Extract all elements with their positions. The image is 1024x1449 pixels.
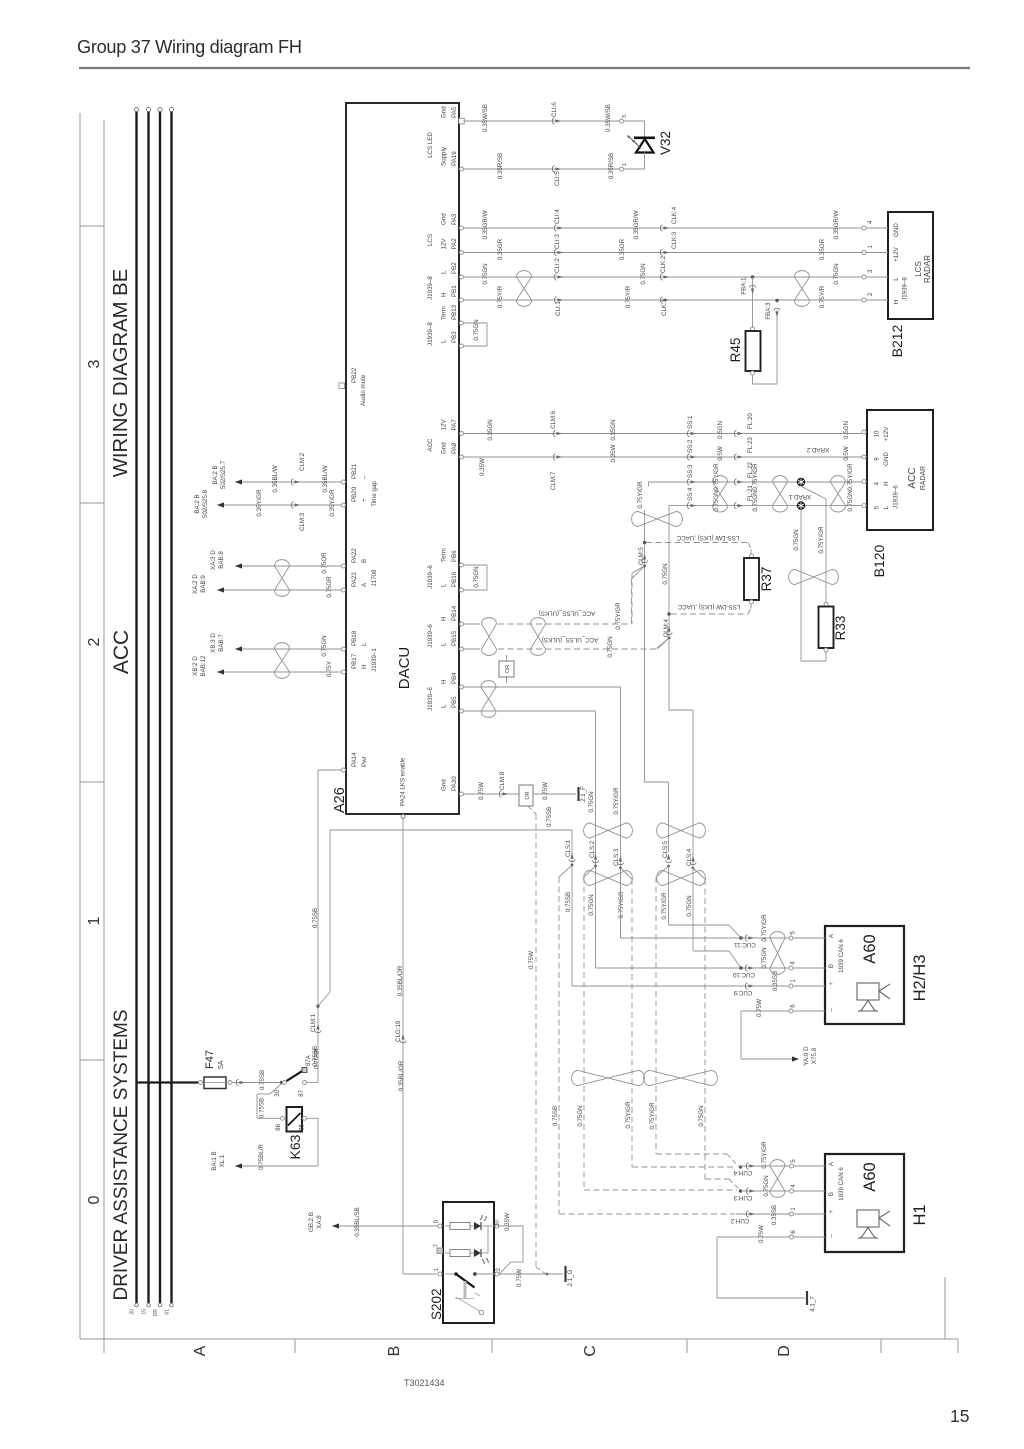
svg-text:+12V: +12V [893,246,900,261]
wire PB2 0.75GN [464,276,863,278]
svg-text:0.75GN: 0.75GN [321,635,328,656]
svg-text:CLM:3: CLM:3 [299,512,306,531]
svg-text:Gnd: Gnd [441,106,448,118]
wire H 0.75Y/GR row [649,481,863,483]
svg-text:SS:4: SS:4 [687,487,694,501]
wire PB21 0.35BL/W to BA:2 [235,481,342,483]
svg-text:B: B [828,1192,835,1196]
svg-text:A: A [192,1345,209,1356]
svg-text:LCS: LCS [914,261,923,277]
relay contact 30/87A/87 [280,1081,283,1084]
svg-text:0.75GN: 0.75GN [473,566,480,587]
svg-text:0.75Y: 0.75Y [326,661,333,677]
svg-text:XA:3 D: XA:3 D [210,550,217,570]
camera A60 H1 [825,1154,904,1252]
svg-text:H1: H1 [911,1204,929,1225]
svg-text:L: L [883,505,890,509]
svg-text:H: H [361,665,368,669]
svg-text:F47: F47 [204,1050,216,1069]
svg-text:CLM:6: CLM:6 [550,410,557,429]
svg-text:CLS:3: CLS:3 [613,848,620,866]
svg-text:0.75Y/R: 0.75Y/R [625,285,632,308]
wire PB14 ACC ULSS dashed [464,623,481,625]
pins PB20 PB21 time gap [342,480,346,484]
svg-text:PB5: PB5 [451,696,458,708]
svg-text:0.75Y/GR: 0.75Y/GR [618,891,625,919]
svg-text:H: H [441,293,448,297]
svg-text:DACU: DACU [396,647,413,690]
svg-text:1939 CAN 6: 1939 CAN 6 [838,1167,845,1201]
svg-text:CLI:1: CLI:1 [555,301,562,316]
loop PB6-PB16 0.75GN [464,564,488,566]
svg-text:J1939–6: J1939–6 [427,624,434,648]
svg-text:0.35W: 0.35W [479,458,486,476]
twisted pairs on H/L [713,476,728,512]
svg-text:CUC:11: CUC:11 [734,941,756,948]
svg-text:0.75GN: 0.75GN [793,529,800,550]
svg-text:PA3: PA3 [451,213,458,225]
svg-text:PA22: PA22 [351,548,358,563]
svg-text:0.35R/SB: 0.35R/SB [608,153,615,179]
svg-text:Term: Term [441,548,448,562]
wire PB18 0.75GN to XB:3 [235,648,342,650]
svg-text:A26: A26 [332,787,348,813]
svg-text:0.75W: 0.75W [758,1225,765,1243]
svg-text:SS:2: SS:2 [687,439,694,453]
svg-text:CUC:9: CUC:9 [733,989,752,996]
svg-text:0.75GN: 0.75GN [752,490,759,511]
svg-text:9: 9 [874,457,881,461]
connector CLS:3 [617,863,623,865]
svg-text:0.75SB: 0.75SB [546,807,553,827]
svg-text:0.75Y/GR: 0.75Y/GR [613,787,620,815]
svg-text:0.35BL/W: 0.35BL/W [322,465,329,492]
svg-text:0.35BL/SB: 0.35BL/SB [354,1207,361,1237]
svg-text:FL:23: FL:23 [747,437,754,453]
svg-text:J1939–8: J1939–8 [902,277,909,301]
svg-text:C: C [582,1345,599,1357]
svg-text:XB:3 D: XB:3 D [210,633,217,653]
svg-text:WIRING DIAGRAM BE: WIRING DIAGRAM BE [110,269,132,477]
svg-text:0.75Y/R: 0.75Y/R [497,285,504,308]
splice XRAD.1 [797,501,805,509]
svg-text:BA:2 B: BA:2 B [194,494,201,513]
svg-text:SS:1: SS:1 [687,415,694,429]
svg-text:ACC_ULSS_(ULKS): ACC_ULSS_(ULKS) [539,610,595,617]
svg-text:H: H [893,300,900,304]
svg-text:FBA:3: FBA:3 [765,302,772,320]
svg-text:0.75GN: 0.75GN [763,1175,770,1196]
svg-text:0.35GR/W: 0.35GR/W [482,210,489,239]
dashed rows into CUH connectors [656,1153,727,1155]
svg-text:CUC:10: CUC:10 [732,971,755,978]
wire PA7 12V 0.35GN/0.5GN [464,433,863,435]
svg-text:Term: Term [441,306,448,320]
svg-text:CLI:5: CLI:5 [554,171,561,186]
svg-text:0.75Y/R: 0.75Y/R [819,285,826,308]
svg-text:12V: 12V [441,238,448,250]
svg-text:CLM:8: CLM:8 [499,771,506,790]
svg-text:CLM:5: CLM:5 [638,546,645,565]
svg-text:XRAD.1: XRAD.1 [788,493,811,500]
svg-text:OR: OR [525,791,531,799]
wire L 0.75GN row [669,505,862,507]
svg-text:0.35GN: 0.35GN [487,419,494,440]
svg-text:502/S25.8: 502/S25.8 [202,489,209,518]
svg-text:PA8: PA8 [451,442,458,454]
svg-text:J1939–6: J1939–6 [427,687,434,711]
wire PB5 0.75GN [464,710,596,712]
svg-text:BAB:7: BAB:7 [218,634,225,652]
svg-text:PA7: PA7 [451,419,458,431]
svg-text:3: 3 [622,115,628,118]
pin PA24 LKS enable (bottom edge) [401,815,405,819]
svg-text:0.75Y/GR: 0.75Y/GR [637,481,644,509]
svg-text:0.75GN: 0.75GN [482,263,489,284]
svg-text:0.75SB: 0.75SB [259,1070,266,1090]
svg-text:Gnd: Gnd [441,442,448,454]
svg-text:PB21: PB21 [351,463,358,479]
svg-text:J1708: J1708 [371,569,378,586]
svg-text:RADAR: RADAR [920,466,927,491]
svg-text:H2/H3: H2/H3 [911,955,929,1002]
radar sensor B212 LCS [888,212,933,319]
radar sensor B120 ACC [867,410,933,530]
svg-text:–: – [361,475,368,479]
svg-text:0.35GR: 0.35GR [819,238,826,260]
svg-text:2: 2 [86,637,103,646]
svg-text:BA:1 B: BA:1 B [211,1151,218,1170]
wire PB1 0.75Y/R [464,299,863,301]
svg-text:0.75GN: 0.75GN [713,490,720,511]
svg-text:LCS LED: LCS LED [427,132,434,158]
pin PB22 audio mute [339,383,345,389]
power rails 30/15/DR/61 [135,111,137,1303]
svg-text:Group 37 Wiring diagram FH: Group 37 Wiring diagram FH [77,37,302,57]
svg-text:CLS:2: CLS:2 [589,840,596,858]
svg-text:CLI:3: CLI:3 [554,234,561,249]
wire CLM:4 0.75GN vertical [668,506,670,710]
wire XRAD.1 0.75GN down [800,510,802,661]
loop pin10 to pin2 0.35W [499,1225,523,1227]
svg-text:0.35BL/OR: 0.35BL/OR [397,965,404,996]
svg-text:X75.8: X75.8 [811,1047,818,1064]
svg-text:B: B [386,1346,403,1357]
svg-text:0.5GN: 0.5GN [843,421,850,439]
svg-text:XL:1: XL:1 [219,1154,226,1167]
svg-text:0.75W: 0.75W [516,1269,523,1287]
wire PA30 0.75W [464,793,520,795]
wire PB17 0.75Y to XB:2 [217,671,342,673]
svg-text:0.5W: 0.5W [717,446,724,461]
svg-text:S202: S202 [429,1288,444,1320]
svg-text:BA:2 B: BA:2 B [212,465,219,484]
terminating resistor R45 [751,275,754,278]
svg-text:0.75OR: 0.75OR [321,552,328,574]
svg-text:FL:20: FL:20 [747,413,754,429]
svg-text:CLS:4: CLS:4 [686,848,693,866]
svg-text:0.75GN: 0.75GN [607,636,614,657]
svg-text:0.75GR: 0.75GR [326,576,333,598]
wire PA14 0.75SB [318,769,342,771]
svg-text:0.35GR/W: 0.35GR/W [633,210,640,239]
svg-text:2.1_F: 2.1_F [580,786,587,802]
svg-text:J1939–6: J1939–6 [427,565,434,589]
svg-text:0.35Y/GR: 0.35Y/GR [256,489,263,517]
svg-text:L: L [441,642,448,646]
svg-text:0.35GR: 0.35GR [619,238,626,260]
svg-text:PB3: PB3 [451,331,458,343]
svg-text:86: 86 [276,1123,282,1130]
svg-text:0.75Y/GR: 0.75Y/GR [761,1141,768,1169]
wire XRAD.2 0.75Y/GR down [801,486,826,499]
wire pin9 to GB:2 B XA:8 [332,1225,438,1227]
svg-text:SS:3: SS:3 [687,464,694,478]
svg-text:12V: 12V [441,419,448,431]
svg-text:CLS:5: CLS:5 [662,840,669,858]
svg-text:B: B [361,559,368,563]
svg-text:Gnd: Gnd [441,213,448,225]
multifunction switch S202 [443,1202,494,1323]
resistor R33 [824,603,828,607]
twisted pair J1939-8 [517,271,532,307]
svg-text:0.35GN: 0.35GN [610,419,617,440]
svg-text:OR: OR [505,665,511,673]
resistor R37 [750,554,754,558]
svg-text:ACC: ACC [110,630,133,674]
svg-text:H: H [883,481,890,485]
svg-text:0: 0 [86,1195,103,1204]
svg-text:0.35W/SB: 0.35W/SB [482,104,489,132]
loop PB13-PB3 0.75GN [464,322,488,324]
feed from rail 30 [137,1081,200,1083]
svg-text:A60: A60 [861,1162,879,1191]
svg-text:B212: B212 [889,324,905,357]
svg-text:PB17: PB17 [351,653,358,669]
svg-text:V32: V32 [658,131,673,155]
svg-text:0.75Y/GR: 0.75Y/GR [847,463,854,491]
relay coil K63 [270,1084,282,1095]
svg-text:CLM:1: CLM:1 [310,1013,317,1032]
svg-text:0.75GN: 0.75GN [588,791,595,812]
svg-text:0.75SB: 0.75SB [259,1098,266,1118]
svg-text:1: 1 [86,916,103,925]
svg-text:Time gap: Time gap [371,481,378,507]
svg-text:CLK:1: CLK:1 [661,298,668,316]
svg-text:J1939–8: J1939–8 [427,322,434,346]
svg-text:0.5W: 0.5W [843,446,850,461]
svg-text:0.35R/SB: 0.35R/SB [497,153,504,179]
wire 87 up to CLM:1 node [317,1006,319,1083]
svg-text:0.5GN: 0.5GN [717,421,724,439]
wire 85 to BA:1 B XL:1 [307,1117,319,1119]
svg-text:PB14: PB14 [451,605,458,621]
svg-text:PB13: PB13 [451,304,458,320]
svg-text:B: B [828,964,835,968]
svg-text:0.35Y/GR: 0.35Y/GR [329,489,336,517]
svg-text:BAB:9: BAB:9 [200,575,207,593]
svg-text:CLK:3: CLK:3 [671,231,678,249]
svg-text:4: 4 [874,481,881,485]
svg-text:LCS: LCS [427,234,434,246]
ground 2.1_F [577,787,579,801]
svg-text:YA:0 D: YA:0 D [803,1046,810,1066]
pins PB17 PB18 J1939-1 [342,647,346,651]
svg-text:CLI:4: CLI:4 [554,209,561,224]
svg-text:0.35W: 0.35W [504,1213,511,1231]
LED V32 [644,121,646,137]
svg-text:D: D [776,1345,793,1357]
wire PB20 0.35Y/GR to BA:2 [217,504,342,506]
svg-text:R45: R45 [728,338,743,363]
svg-text:PA19: PA19 [451,151,458,166]
connector CLS:5 [665,861,671,863]
svg-text:PB1: PB1 [451,285,458,297]
svg-text:CUH:4: CUH:4 [733,1169,752,1176]
svg-text:L: L [441,339,448,343]
svg-text:L: L [361,642,368,646]
wire PA23 0.75GR to XA:2 [217,589,342,591]
svg-text:J1939–8: J1939–8 [427,276,434,300]
svg-text:B120: B120 [871,544,887,577]
svg-text:L: L [441,704,448,708]
svg-text:0.75GN: 0.75GN [698,1105,705,1126]
svg-text:0.75GN: 0.75GN [833,263,840,284]
svg-text:5: 5 [874,505,881,509]
svg-text:0.35BL/W: 0.35BL/W [272,465,279,492]
svg-text:61: 61 [164,1309,170,1315]
svg-text:CLM:4: CLM:4 [663,618,670,637]
svg-text:0.35GR: 0.35GR [497,238,504,260]
svg-text:0.35SB: 0.35SB [771,1205,778,1225]
svg-text:0.75GN: 0.75GN [847,490,854,511]
svg-text:CUH:3: CUH:3 [733,1194,752,1201]
svg-text:J1939–6: J1939–6 [893,485,900,509]
svg-text:15: 15 [141,1309,147,1315]
wire PB15 ACC ULSS dashed [464,648,481,650]
svg-text:0.75GN: 0.75GN [640,263,647,284]
svg-text:CLS:1: CLS:1 [565,839,572,857]
pins PA23 PA22 J1708 [342,564,346,568]
svg-text:L: L [893,277,900,281]
svg-text:15: 15 [950,1406,969,1426]
wire PA24 0.35BL/OR [402,817,404,1275]
svg-text:ACC: ACC [427,438,434,452]
svg-text:0.75Y/GR: 0.75Y/GR [625,1101,632,1129]
svg-text:1939 CAN 6: 1939 CAN 6 [838,939,845,973]
svg-text:0.75W: 0.75W [756,999,763,1017]
wire PA19 0.35R/SB [464,168,620,170]
svg-text:2.1_G: 2.1_G [567,1269,574,1286]
svg-text:L: L [441,583,448,587]
svg-text:30: 30 [129,1309,135,1315]
svg-text:XRAD.2: XRAD.2 [806,446,829,453]
svg-text:XB:2 D: XB:2 D [192,656,199,676]
svg-text:4.1_7: 4.1_7 [810,1296,817,1312]
svg-text:A60: A60 [861,934,879,963]
svg-text:0.75GN: 0.75GN [473,319,480,340]
svg-text:PB18: PB18 [351,630,358,646]
svg-text:H: H [441,617,448,621]
svg-text:PB15: PB15 [451,630,458,646]
svg-text:3: 3 [86,359,103,368]
svg-text:Supply: Supply [441,146,448,166]
svg-text:T3021434: T3021434 [404,1378,445,1388]
svg-text:R33: R33 [833,616,848,641]
svg-text:GB:2 B: GB:2 B [308,1212,315,1232]
svg-text:RADAR: RADAR [923,255,932,283]
svg-text:0.35W: 0.35W [610,444,617,462]
svg-text:BAB:8: BAB:8 [218,551,225,569]
svg-text:0.75SB: 0.75SB [552,1106,559,1126]
wire PB4 0.75Y/GR [464,686,621,688]
svg-text:0.75GN: 0.75GN [588,894,595,915]
svg-text:CLK:2: CLK:2 [660,255,667,273]
svg-text:ACC_ULSS_(ULKS): ACC_ULSS_(ULKS) [542,636,598,643]
svg-text:CUH:2: CUH:2 [730,1217,749,1224]
OR junction box (bus bridge) [506,655,508,661]
svg-text:PB2: PB2 [451,262,458,274]
svg-text:0.35GR/W: 0.35GR/W [833,210,840,239]
svg-text:0.75Y/GR: 0.75Y/GR [661,892,668,920]
svg-text:5A: 5A [218,1060,225,1069]
wire PA22 0.75OR to XA:3 [235,565,342,567]
svg-text:CLI:6: CLI:6 [551,102,558,117]
connector CLS:4 [690,863,696,865]
wire PA8 Gnd 0.35W/0.5W [464,456,863,458]
svg-text:LSS-DW (LKS) ,UACC: LSS-DW (LKS) ,UACC [677,603,740,610]
wire 0.75SB from K63 to CLS:1 [330,829,572,831]
svg-text:30: 30 [275,1089,281,1096]
pin6 to ground 4.1_7 [717,1236,790,1238]
svg-text:CLI:2: CLI:2 [554,258,561,273]
svg-text:PA5: PA5 [451,106,458,118]
ECU A26 DACU [346,103,459,814]
svg-text:+: + [828,982,835,986]
svg-text:0.35W/SB: 0.35W/SB [605,104,612,132]
svg-text:PA14: PA14 [351,752,358,767]
CLS dashed verticals to H1 [583,877,585,1190]
camera A60 H2/H3 [825,926,904,1024]
svg-text:10: 10 [874,430,881,437]
svg-text:FBA:1: FBA:1 [741,277,748,295]
fuse F47 5A [199,1081,203,1085]
wire CLM:5 0.75Y/GR vertical [644,510,646,782]
svg-text:0.75GN: 0.75GN [577,1105,584,1126]
svg-text:0.75Y/GR: 0.75Y/GR [615,602,622,630]
svg-text:PA24 LKS enable: PA24 LKS enable [400,757,407,806]
svg-text:PB4: PB4 [451,672,458,684]
svg-text:0.75Y/GR: 0.75Y/GR [818,526,825,554]
connector CLS:2 [592,861,598,863]
wire PA5 0.35W/SB [464,120,645,122]
svg-text:Audio mute: Audio mute [360,374,367,406]
svg-text:0.75W: 0.75W [528,951,535,969]
svg-text:L: L [441,270,448,274]
svg-text:0.75BL/R: 0.75BL/R [258,1144,265,1170]
svg-text:0.75GN: 0.75GN [761,947,768,968]
wire PA2 0.35GR [464,252,863,254]
svg-text:PB6: PB6 [451,550,458,562]
svg-text:–: – [828,1007,835,1011]
svg-text:LSS-DW (LKS) ,UACC: LSS-DW (LKS) ,UACC [676,534,739,541]
splice XRAD.2 [797,478,805,486]
svg-text:DR: DR [153,1309,159,1317]
svg-text:+: + [361,498,368,502]
svg-text:0.75SB: 0.75SB [312,1046,319,1066]
svg-text:CLG:19: CLG:19 [395,1020,402,1042]
svg-text:GND: GND [893,223,900,237]
